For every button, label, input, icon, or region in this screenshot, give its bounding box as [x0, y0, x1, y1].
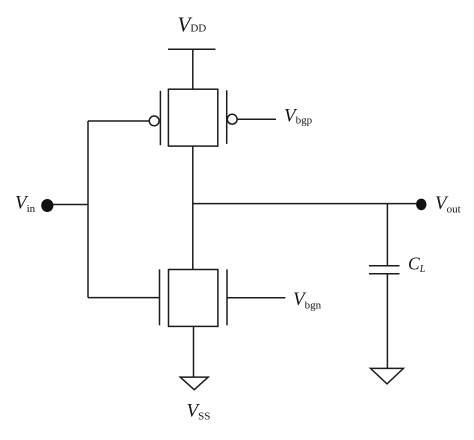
wire M2 source to ground [193, 326, 195, 377]
wire M1 drain to M2 drain [192, 146, 194, 269]
wire input bus to M2 gate bar [88, 297, 160, 299]
svg-text:Vbgp: Vbgp [284, 105, 313, 126]
transistor M1 left gate bar [159, 91, 161, 145]
transistor M1 gate bubble (left) [149, 116, 159, 126]
wire back-gate bubble to Vbgp [237, 118, 276, 120]
ground symbol right (under CL) [371, 368, 404, 384]
wire M2 back gate to Vbgn [227, 297, 285, 299]
capacitor CL top plate [369, 265, 400, 267]
svg-text:VDD: VDD [178, 12, 207, 36]
node Vin (filled dot) [41, 199, 53, 212]
wire Vin node to input bus [46, 204, 88, 206]
transistor M1 back-gate bubble (right) [227, 114, 237, 124]
svg-text:Vbgn: Vbgn [293, 289, 322, 312]
wire input bus vertical [87, 121, 89, 298]
wire Vout line to capacitor CL [386, 204, 388, 266]
capacitor CL bottom plate [369, 273, 400, 275]
transistor M2 right back-gate bar [226, 269, 228, 325]
svg-text:Vin: Vin [15, 193, 36, 215]
transistor M2 left gate bar [159, 269, 161, 325]
transistor M1 right back-gate bar [226, 90, 228, 144]
svg-text:CL: CL [408, 254, 426, 276]
node Vout (filled dot) [416, 199, 426, 211]
transistor M2 NMOS body box [169, 270, 218, 327]
svg-text:VSS: VSS [187, 401, 211, 423]
ground symbol VSS (under M2) [180, 377, 208, 390]
transistor M1 PMOS body box [168, 89, 217, 146]
wire output node to Vout [193, 203, 421, 205]
power supply bar VDD [168, 48, 216, 50]
wire M1 gate bubble to input bus [88, 120, 149, 122]
wire capacitor CL to ground [386, 274, 388, 369]
svg-text:Vout: Vout [435, 193, 461, 215]
wire VDD bar to M1 source [192, 49, 194, 89]
